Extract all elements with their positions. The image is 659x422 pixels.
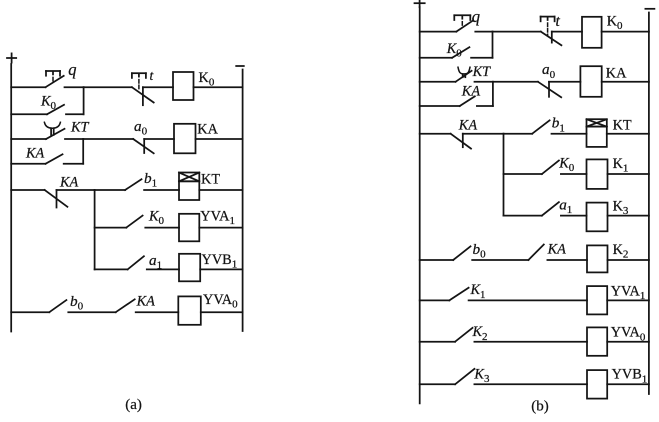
svg-text:t: t (556, 13, 561, 30)
svg-text:KT: KT (201, 172, 220, 188)
svg-text:KT: KT (70, 120, 90, 136)
svg-text:KA: KA (461, 84, 481, 100)
svg-text:KA: KA (136, 293, 156, 309)
svg-text:(b): (b) (531, 398, 549, 414)
svg-text:KA: KA (197, 122, 218, 138)
svg-text:KA: KA (458, 117, 478, 133)
svg-text:KA: KA (547, 242, 567, 258)
svg-text:KA: KA (25, 146, 45, 162)
svg-text:KT: KT (472, 64, 492, 80)
svg-text:q: q (68, 60, 76, 79)
svg-text:KT: KT (613, 118, 632, 134)
svg-text:(a): (a) (125, 397, 142, 413)
svg-text:KA: KA (606, 65, 627, 81)
svg-text:q: q (472, 7, 480, 26)
svg-text:KA: KA (59, 175, 79, 191)
